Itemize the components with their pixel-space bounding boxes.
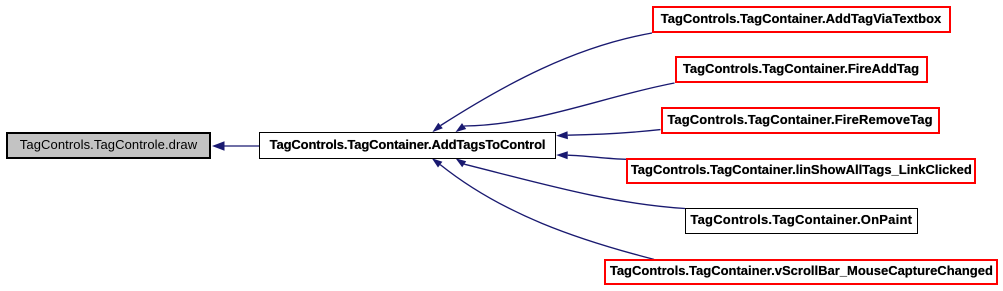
wire E1: AddTagViaTextbox -> AddTagsToControl [441, 33, 652, 126]
wire E4: linShowAllTags_LinkClicked -> AddTagsToControl [568, 155, 627, 159]
wire E0: AddTagsToControl -> draw [224, 145, 259, 147]
node: TagControls.TagContainer.vScrollBar_MouseCaptureChanged [604, 259, 998, 285]
arrowhead E4 [556, 151, 568, 159]
node: TagControls.TagContainer.AddTagViaTextbox [652, 6, 951, 33]
wire E3: FireRemoveTag -> AddTagsToControl [568, 130, 661, 136]
node: TagControls.TagContainer.FireAddTag [675, 56, 928, 83]
arrowhead E5 [456, 158, 467, 167]
node: TagControls.TagContainer.OnPaint [685, 208, 918, 234]
node: TagControls.TagControle.draw (current, grey) [6, 132, 211, 159]
arrowhead E2 [456, 123, 467, 132]
arrowhead E0 [212, 141, 225, 151]
node: TagControls.TagContainer.FireRemoveTag [661, 107, 940, 134]
wire E2: FireAddTag -> AddTagsToControl [464, 83, 674, 126]
arrowhead E6 [432, 158, 443, 167]
wire E6: vScrollBar_MouseCaptureChanged -> AddTagsToControl [440, 165, 654, 260]
arrowhead E3 [556, 131, 568, 139]
node: TagControls.TagContainer.AddTagsToControl [259, 132, 556, 159]
node: TagControls.TagContainer.linShowAllTags_LinkClicked [626, 158, 976, 184]
arrowhead E1 [432, 123, 442, 132]
wire E5: OnPaint -> AddTagsToControl [464, 164, 685, 208]
